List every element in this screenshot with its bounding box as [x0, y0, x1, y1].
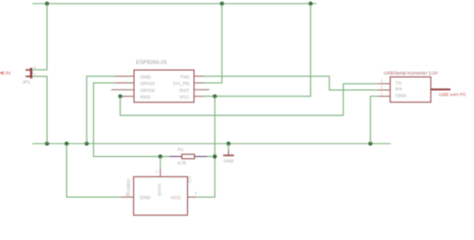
pin TXD of ESP (stub) — [194, 75, 204, 77]
wire VCC vertical to R1 right and DS18B20 VCC — [196, 96, 215, 197]
svg-text:USB vom PC: USB vom PC — [439, 92, 467, 97]
op amp ESP8266-01 module box U1 — [134, 70, 194, 102]
transistor DS18B20 sensor box IC1 — [134, 177, 188, 216]
wire ESP GPIO2 to R1/DATA node — [94, 83, 161, 157]
node junction top rail / JP1 drop — [45, 2, 49, 6]
pin RX of converter (stub) — [378, 89, 390, 91]
wire 3.3V rail to JP1 pin 2 — [33, 4, 47, 70]
node junction R1 right / VCC vertical — [213, 155, 217, 159]
svg-text:DATA: DATA — [157, 183, 163, 196]
label 3,3V (net) — [0, 72, 3, 74]
node junction top rail / VCC drop — [309, 2, 313, 6]
wire ESP GND pin to GND rail — [87, 76, 115, 143]
svg-text:2: 2 — [381, 86, 383, 90]
svg-text:3: 3 — [195, 191, 197, 195]
pin RXD of ESP (stub) — [120, 95, 134, 97]
svg-text:1: 1 — [381, 92, 383, 96]
node junction bottom rail / converter GND — [368, 142, 372, 146]
pin TX of converter (stub) — [378, 83, 390, 85]
svg-text:IC1: IC1 — [187, 175, 192, 182]
svg-text:3,3V: 3,3V — [1, 71, 12, 77]
wire DS18B20 GND to GND rail — [67, 144, 121, 198]
svg-text:RXD: RXD — [140, 95, 151, 101]
svg-text:1: 1 — [34, 73, 36, 77]
pin VCC of DS18B20 (stub) — [188, 196, 197, 198]
svg-text:VCC: VCC — [171, 195, 182, 201]
svg-text:JP1: JP1 — [22, 79, 30, 84]
svg-text:RX: RX — [396, 87, 403, 93]
node junction bottom rail / GND symbol — [227, 142, 231, 146]
pin GND of ESP (stub) — [115, 75, 134, 77]
svg-text:3: 3 — [381, 79, 383, 83]
resistor R1 — [160, 156, 169, 158]
svg-text:GND: GND — [223, 158, 234, 163]
svg-text:GND: GND — [140, 195, 151, 201]
svg-text:TX: TX — [396, 81, 403, 87]
wire ESP RXD to converter TX — [120, 84, 378, 116]
svg-text:GPIO2: GPIO2 — [140, 81, 155, 87]
pin RST of ESP (stub, unconnected) — [194, 89, 209, 91]
wire converter GND to GND rail — [370, 96, 378, 143]
wire ESP TXD to converter RX — [204, 76, 379, 90]
pin GND of DS18B20 (stub) — [121, 196, 134, 198]
svg-text:1: 1 — [125, 192, 127, 196]
svg-text:ESP8266-01: ESP8266-01 — [136, 60, 167, 66]
node junction bottom rail / ESP GND — [85, 142, 89, 146]
pin GPIO0 of ESP (stub, unconnected) — [111, 89, 133, 91]
svg-text:GND: GND — [396, 93, 407, 99]
svg-text:RST: RST — [180, 88, 190, 94]
svg-text:TXD: TXD — [180, 74, 190, 80]
wire USB vom PC (thick) — [431, 88, 451, 90]
node junction R1 left / GPIO2 / DATA — [158, 155, 162, 159]
node junction bottom rail / DS18B20 GND — [65, 142, 69, 146]
svg-text:VCC: VCC — [179, 95, 190, 101]
node RXD pin connection — [118, 94, 122, 98]
node junction top rail / CH_PD drop — [220, 2, 224, 6]
svg-text:2: 2 — [34, 66, 36, 70]
ground symbol GND — [228, 144, 230, 151]
svg-text:4,7k: 4,7k — [177, 161, 186, 166]
wire ESP VCC row to 3.3V drop — [204, 4, 311, 97]
pin GND of converter (stub) — [378, 95, 390, 97]
pin CH_PD of ESP (stub) — [194, 82, 204, 84]
node junction VCC pin / vertical — [213, 94, 217, 98]
op amp USB/Serial converter box — [390, 77, 431, 102]
svg-text:R1: R1 — [178, 147, 184, 152]
svg-text:2: 2 — [155, 170, 157, 174]
node junction bottom rail / JP1 pin1 — [45, 142, 49, 146]
wire ESP CH_PD to 3.3V rail — [204, 4, 222, 83]
pin VCC of ESP (stub) — [194, 95, 204, 97]
pin GPIO2 of ESP (stub) — [115, 82, 134, 84]
wire GND bottom rail — [32, 143, 390, 145]
svg-text:USB/Serial Konverter 3,3V: USB/Serial Konverter 3,3V — [384, 70, 439, 75]
svg-text:GPIO0: GPIO0 — [140, 88, 155, 94]
wire R1/GPIO2 node down to DS18B20 DATA — [159, 157, 161, 169]
pin DATA of DS18B20 (stub) — [159, 168, 161, 176]
wire JP1 pin 1 to GND rail — [33, 76, 47, 143]
connector JP1 — [26, 68, 33, 79]
svg-text:GND: GND — [140, 74, 151, 80]
svg-text:CH_PD: CH_PD — [173, 81, 190, 87]
wire +3.3V top rail — [32, 3, 316, 5]
